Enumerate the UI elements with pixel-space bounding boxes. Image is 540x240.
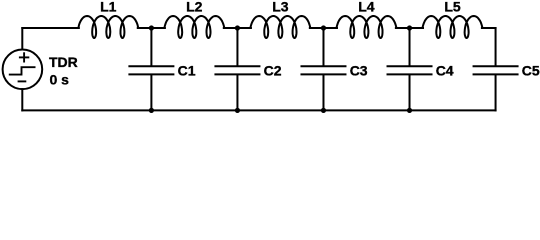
svg-text:0 s: 0 s (50, 72, 70, 88)
svg-text:C3: C3 (350, 63, 368, 79)
svg-text:L1: L1 (100, 0, 117, 15)
svg-text:TDR: TDR (49, 54, 78, 70)
svg-text:L5: L5 (444, 0, 461, 15)
svg-text:L4: L4 (358, 0, 375, 15)
svg-text:C1: C1 (178, 63, 196, 79)
svg-text:C2: C2 (264, 63, 282, 79)
svg-text:L2: L2 (186, 0, 203, 15)
svg-text:C4: C4 (436, 63, 454, 79)
svg-text:C5: C5 (522, 63, 540, 79)
svg-text:L3: L3 (272, 0, 289, 15)
